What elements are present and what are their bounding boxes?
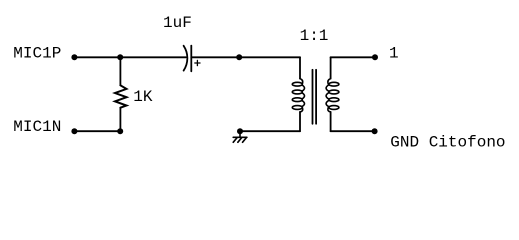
svg-text:GND Citofono: GND Citofono [390,134,505,152]
svg-text:1: 1 [389,44,399,62]
svg-text:MIC1P: MIC1P [13,44,61,62]
svg-text:1:1: 1:1 [300,27,329,45]
svg-text:1K: 1K [133,88,153,106]
svg-text:MIC1N: MIC1N [13,118,61,136]
svg-text:1uF: 1uF [163,14,192,32]
